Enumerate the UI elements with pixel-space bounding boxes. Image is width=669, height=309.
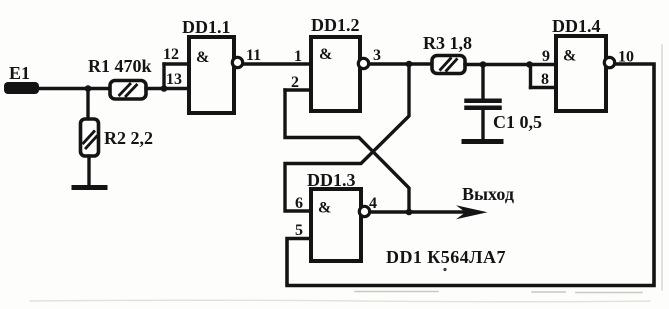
wire R3 to DD1.4 pin 9: [465, 63, 556, 66]
svg-text:DD1.3: DD1.3: [307, 170, 356, 190]
svg-text:&: &: [318, 200, 331, 217]
wire tie 8-9: [529, 65, 532, 88]
svg-text:8: 8: [541, 71, 549, 88]
svg-text:5: 5: [295, 222, 303, 239]
op-amp U1: NAND gate DD1.1: [182, 17, 234, 113]
wire pin 3 to R3: [370, 62, 432, 65]
inverter bubble DD1.4 output: [604, 57, 614, 67]
node junction C1: [480, 61, 487, 68]
gate DD1.3: [307, 170, 361, 261]
svg-text:3: 3: [373, 47, 381, 64]
arrowhead output: [456, 205, 488, 219]
wire DD1.2 pin2 to DD1.3 output node (cross-coupling): [285, 90, 409, 212]
svg-text:13: 13: [166, 71, 182, 88]
svg-text:&: &: [563, 48, 576, 65]
svg-text:E1: E1: [9, 63, 30, 83]
wire tie 12-13: [162, 64, 165, 89]
inverter bubble DD1.3 output: [359, 206, 369, 216]
wire R2 to ground: [87, 156, 90, 186]
node junction E1/R2: [85, 85, 92, 92]
inverter bubble DD1.2 output: [358, 58, 368, 68]
wire C1 to ground: [481, 110, 484, 139]
wire pin 8: [531, 86, 557, 89]
wire pin 12: [164, 62, 189, 65]
wire pin 11 to pin 1: [244, 62, 311, 65]
inverter bubble DD1.1 output: [232, 57, 242, 67]
wire junction to R2: [86, 89, 89, 120]
node junction pin3: [406, 61, 413, 68]
ground (R2): [74, 185, 105, 190]
svg-text:R1 470k: R1 470k: [88, 56, 152, 76]
wire R1 to pin 13: [146, 87, 189, 90]
svg-text:DD1.4: DD1.4: [552, 16, 601, 36]
svg-text:DD1.2: DD1.2: [311, 15, 360, 35]
resistor R1 470k: [88, 56, 152, 99]
node junction pins 12/13: [161, 85, 168, 92]
svg-text:R3 1,8: R3 1,8: [423, 33, 472, 53]
wire pin 2: [285, 88, 311, 91]
svg-text:12: 12: [163, 46, 179, 63]
gate DD1.2: [311, 15, 360, 111]
ground (C1): [464, 139, 501, 144]
wire pin 10 feedback to DD1.3 pin 5: [287, 64, 654, 286]
wire pin 4 output line: [371, 210, 464, 213]
svg-text:&: &: [196, 49, 209, 66]
svg-text:11: 11: [246, 47, 261, 64]
svg-text:DD1.1: DD1.1: [182, 17, 231, 37]
svg-text:&: &: [319, 46, 332, 63]
electrode E1: [4, 63, 39, 94]
svg-text:9: 9: [542, 48, 550, 65]
svg-text:DD1 К564ЛА7: DD1 К564ЛА7: [386, 247, 506, 267]
gate DD1.4: [552, 16, 606, 111]
wire pin3 node to DD1.3 pin 6 (cross-coupling): [285, 64, 409, 211]
wire junction to C1: [481, 65, 484, 99]
svg-text:1: 1: [294, 48, 302, 65]
node junction pins 8/9: [526, 61, 533, 68]
svg-text:R2 2,2: R2 2,2: [104, 128, 153, 148]
wire E1 to R1: [37, 87, 110, 90]
capacitor C1 0,5: [467, 101, 543, 132]
svg-text:6: 6: [295, 195, 303, 212]
scan smudge bottom: [355, 292, 642, 293]
svg-text:Выход: Выход: [462, 184, 514, 204]
speck below label: [443, 268, 446, 271]
node junction on output line: [406, 209, 413, 216]
resistor R2 2,2: [81, 119, 154, 156]
svg-text:C1 0,5: C1 0,5: [493, 112, 542, 132]
resistor R3 1,8: [423, 33, 472, 74]
